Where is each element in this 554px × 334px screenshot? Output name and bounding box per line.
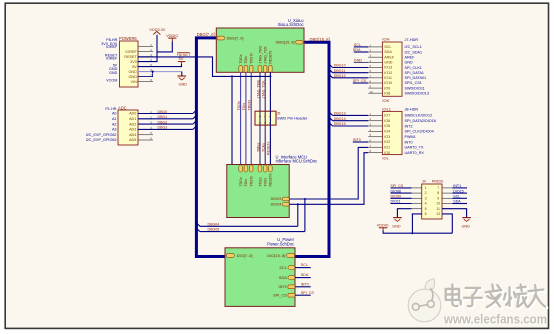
svg-text:12: 12: [436, 212, 440, 216]
ground symbol (J4 right): [462, 218, 471, 229]
svg-text:IO9: IO9: [384, 86, 390, 90]
wire 3V3 to VDD3.3V: [138, 35, 158, 62]
wire DBG10: [329, 64, 368, 68]
svg-text:GND: GND: [109, 71, 118, 75]
svg-text:INT0: INT0: [405, 140, 413, 144]
ground symbol GND (left): [178, 76, 188, 87]
U1 pin JTAG_TCK: [263, 45, 267, 72]
wire JTAG_TMS: [256, 72, 260, 164]
wire DIO11 (J4 left): [391, 200, 412, 204]
svg-text:DBG11: DBG11: [334, 69, 346, 73]
svg-text:TCKs: TCKs: [262, 143, 266, 152]
svg-text:AD0: AD0: [129, 112, 136, 116]
net label RESET (overbar): [177, 52, 191, 57]
U2 pin TRSTs: [249, 165, 253, 187]
svg-text:DIO09: DIO09: [391, 195, 401, 199]
svg-text:IO11: IO11: [384, 76, 392, 80]
wire DBG15: [329, 122, 368, 126]
wire DIO09 (J4 left): [391, 195, 412, 199]
wire GND (IOH): [354, 59, 369, 63]
connector IOH header: [382, 37, 402, 103]
svg-text:GND: GND: [405, 61, 414, 65]
connector P8 POWER6: [119, 36, 138, 87]
ground symbol (J4 left): [392, 218, 401, 229]
wire SPI_CS (U3): [295, 291, 314, 295]
svg-text:VDDIO: VDDIO: [166, 34, 178, 38]
wire VDDIO to 3V3 rail: [157, 42, 172, 52]
connector ADC: [118, 105, 138, 145]
svg-text:Power.SchDoc: Power.SchDoc: [267, 242, 294, 247]
wire SDA: [353, 48, 369, 52]
svg-text:4: 4: [425, 202, 427, 206]
svg-text:3: 3: [425, 196, 427, 200]
svg-text:DBG[7..0]: DBG[7..0]: [197, 32, 215, 37]
svg-text:INT0: INT0: [301, 282, 309, 286]
svg-text:SPI_CS: SPI_CS: [391, 184, 404, 188]
svg-text:DIO[15..8]: DIO[15..8]: [267, 253, 285, 258]
svg-text:AREF: AREF: [384, 55, 395, 59]
watermark logo: [408, 279, 441, 322]
svg-text:IO13: IO13: [384, 66, 392, 70]
wire RESET net: [138, 57, 272, 165]
U3 pin SCL: [279, 266, 295, 270]
wire SCL (J4 right): [452, 195, 467, 199]
svg-text:IOREF: IOREF: [106, 45, 118, 49]
svg-text:GND: GND: [129, 70, 138, 74]
power symbol VDDIO (J4): [377, 224, 389, 231]
svg-text:TMSs: TMSs: [258, 177, 262, 186]
svg-text:DIO08: DIO08: [391, 189, 401, 193]
svg-text:8: 8: [437, 191, 439, 195]
svg-text:AD5: AD5: [129, 138, 136, 142]
svg-text:7: 7: [437, 186, 439, 190]
svg-text:SPI_CLK2/DIO04: SPI_CLK2/DIO04: [405, 130, 434, 134]
svg-text:DBG14: DBG14: [334, 117, 346, 121]
svg-text:DBG3: DBG3: [158, 126, 168, 130]
svg-text:4: 4: [263, 115, 267, 117]
svg-text:IO4: IO4: [384, 130, 390, 134]
wire SPI_CS (J4 left): [391, 184, 412, 188]
svg-text:INT2: INT2: [405, 124, 413, 128]
svg-text:IO1: IO1: [384, 146, 390, 150]
svg-text:VCOM: VCOM: [106, 78, 117, 82]
svg-text:IO3: IO3: [384, 135, 390, 139]
svg-text:SWDCLK/DIO12: SWDCLK/DIO12: [405, 114, 433, 118]
svg-text:3V3: 3V3: [130, 60, 137, 64]
svg-text:TDOs: TDOs: [239, 54, 243, 63]
svg-text:DBG04: DBG04: [208, 222, 220, 226]
U1 pin TDOs: [239, 54, 243, 72]
svg-text:I2C_EXP_GPIO63: I2C_EXP_GPIO63: [86, 138, 117, 142]
svg-text:DBG[15..8]: DBG[15..8]: [276, 41, 295, 45]
U2 pin TMSs: [258, 165, 262, 187]
svg-text:SDA: SDA: [384, 50, 392, 54]
U2 pin DIO04: [271, 203, 290, 207]
wire DBG0: [138, 110, 196, 114]
IOL pin stubs: [368, 112, 382, 153]
svg-text:SPI_CS: SPI_CS: [301, 291, 315, 295]
svg-text:5V: 5V: [179, 57, 184, 61]
svg-text:5V: 5V: [132, 65, 137, 69]
wire DBG1: [138, 115, 196, 119]
wire DIO08 (J4 left): [391, 189, 412, 193]
svg-text:DBG2: DBG2: [158, 120, 168, 124]
IOH right description column: [405, 38, 429, 96]
svg-text:DBG10: DBG10: [334, 64, 346, 68]
power symbol 5V: [178, 57, 185, 64]
U1 pin RESETs: [269, 50, 273, 72]
bus label DBG[15..8]: [310, 37, 330, 42]
svg-text:TDIs: TDIs: [244, 56, 248, 64]
svg-text:IOREF: IOREF: [125, 50, 137, 54]
svg-text:SPI_CLK1: SPI_CLK1: [405, 66, 422, 70]
svg-text:DBG15: DBG15: [334, 122, 346, 126]
J5 pin numbers: [258, 115, 272, 123]
wire SCL: [354, 43, 369, 47]
svg-text:TRSTs: TRSTs: [250, 53, 254, 64]
svg-text:IO12: IO12: [384, 71, 392, 75]
svg-text:RESETs: RESETs: [269, 50, 273, 63]
svg-text:AD4: AD4: [129, 133, 136, 137]
svg-text:IOH: IOH: [382, 37, 389, 42]
svg-text:SCL: SCL: [453, 195, 460, 199]
svg-text:INT1: INT1: [453, 184, 461, 188]
svg-text:A3: A3: [112, 128, 117, 132]
wire DBG12: [329, 74, 368, 78]
svg-text:TDIs: TDIs: [242, 103, 246, 111]
svg-text:GND: GND: [384, 61, 393, 65]
svg-text:10: 10: [436, 202, 440, 206]
svg-text:VIN: VIN: [131, 80, 138, 84]
wire UART IO0 to DIO04: [289, 153, 368, 206]
svg-text:TDOs: TDOs: [239, 177, 243, 186]
svg-text:DIO03: DIO03: [271, 197, 282, 201]
svg-text:TMSs: TMSs: [256, 142, 260, 152]
svg-text:IO8: IO8: [384, 92, 390, 96]
svg-text:GND: GND: [462, 224, 471, 228]
wire DBG14: [329, 117, 368, 121]
U1 pin JTAG_TMS: [258, 45, 262, 72]
U2 pin TDIs: [244, 165, 248, 187]
wire INT0 (U3): [295, 282, 311, 286]
svg-text:SCL: SCL: [354, 43, 361, 47]
svg-text:1: 1: [425, 186, 427, 190]
svg-text:TRSTs: TRSTs: [250, 176, 254, 187]
svg-text:XiaLu.SchDoc: XiaLu.SchDoc: [278, 22, 304, 27]
IOL right description column: [405, 107, 436, 154]
svg-text:AD1: AD1: [129, 117, 136, 121]
svg-text:DBG05: DBG05: [208, 228, 220, 232]
svg-text:INT0: INT0: [279, 285, 287, 289]
ADC pin stubs and numbers: [138, 110, 153, 141]
U2 pin TCKs: [263, 165, 267, 187]
svg-text:I2C_SDA1: I2C_SDA1: [405, 50, 423, 54]
svg-text:IO2: IO2: [384, 140, 390, 144]
svg-text:SCL: SCL: [279, 266, 286, 270]
wire J4 pin5 to ground: [397, 209, 411, 218]
wire DBG05: [196, 199, 305, 232]
U2 pin DIO03: [271, 197, 290, 201]
svg-text:PWM1: PWM1: [405, 135, 416, 139]
svg-text:5: 5: [425, 207, 427, 211]
J4 pin stubs: [412, 188, 453, 214]
svg-text:SWDIO/DIO13: SWDIO/DIO13: [405, 92, 429, 96]
wire VDDIO net (J4 bottom): [383, 214, 452, 234]
svg-text:TRSTs: TRSTs: [248, 100, 252, 111]
U1 pin TRSTs: [249, 53, 253, 72]
svg-text:11: 11: [436, 207, 440, 211]
wire TDOs: [237, 72, 241, 164]
wire DBG11: [329, 69, 368, 73]
svg-text:DIO15: DIO15: [453, 189, 463, 193]
svg-text:SDA: SDA: [453, 200, 461, 204]
POWER6 left net name column: [101, 38, 118, 82]
svg-text:GND: GND: [179, 83, 188, 87]
svg-text:JTAG_TCK: JTAG_TCK: [262, 80, 266, 99]
POWER6 pin stubs and numbers: [138, 43, 153, 82]
svg-text:2: 2: [425, 191, 427, 195]
svg-text:DIO11: DIO11: [391, 200, 401, 204]
svg-text:TDOs: TDOs: [237, 101, 241, 111]
connector IOL header: [382, 106, 402, 160]
svg-text:SWD Pin Header: SWD Pin Header: [277, 116, 308, 121]
svg-text:IOREF: IOREF: [106, 57, 118, 61]
wire TRSTs: [248, 72, 252, 164]
svg-text:AD2: AD2: [129, 122, 136, 126]
bus DBG[15..8] (right): [294, 42, 329, 256]
watermark chinese text: [446, 285, 547, 309]
svg-text:TCKs: TCKs: [264, 178, 268, 187]
svg-text:IO7: IO7: [384, 114, 390, 118]
sheet symbol U1 U_XiaLu: [216, 18, 304, 72]
svg-text:2: 2: [258, 115, 262, 117]
svg-text:TDIs: TDIs: [244, 179, 248, 187]
svg-text:SCL: SCL: [384, 45, 391, 49]
svg-text:IO0: IO0: [384, 151, 390, 155]
wires through J5 header: [260, 111, 270, 125]
U1 pin DBG[15..8]: [276, 40, 303, 44]
ADC left net name column: [86, 107, 117, 142]
wire DBG2: [138, 120, 196, 124]
svg-text:3: 3: [263, 122, 267, 124]
svg-text:SPI_DATA1: SPI_DATA1: [405, 71, 425, 75]
svg-text:5: 5: [268, 122, 272, 124]
sheet symbol U3 U_Power: [225, 237, 295, 306]
svg-text:SPI1_CS1: SPI1_CS1: [405, 81, 422, 85]
svg-text:I2C_SCL1: I2C_SCL1: [405, 45, 422, 49]
wire SDA (J4 right): [452, 200, 467, 204]
svg-text:DBG0: DBG0: [158, 110, 168, 114]
IOH pin stubs: [368, 43, 382, 93]
wire J4 pin11 to ground: [442, 209, 467, 218]
svg-text:DIO04: DIO04: [271, 203, 282, 207]
svg-text:JTAG_TMS: JTAG_TMS: [256, 79, 260, 98]
svg-text:IO6: IO6: [384, 119, 390, 123]
svg-text:UART0_RX: UART0_RX: [405, 151, 425, 155]
U3 pin SPI_CS: [273, 293, 295, 297]
wire UART IO1 to DIO03: [289, 147, 368, 200]
bus DBG[7..0] (left): [196, 38, 226, 257]
wire INT1 (J4 right): [452, 184, 467, 188]
wire DBG04: [196, 204, 297, 226]
svg-text:JTAG_TMS: JTAG_TMS: [258, 45, 262, 64]
svg-text:SPI_DATA2/DIO16: SPI_DATA2/DIO16: [405, 119, 436, 123]
svg-text:VDD3.3V: VDD3.3V: [149, 28, 165, 32]
wire SDA (U3): [295, 273, 311, 277]
svg-text:DBG13: DBG13: [334, 112, 346, 116]
svg-text:GND: GND: [354, 59, 363, 63]
svg-text:VDDIO: VDDIO: [377, 224, 389, 228]
svg-text:SDA: SDA: [353, 48, 361, 52]
svg-text:DBG12: DBG12: [334, 74, 346, 78]
svg-text:IO10: IO10: [384, 81, 392, 85]
U3 pin DIO[15..8]: [267, 253, 294, 258]
svg-text:GND: GND: [392, 224, 401, 228]
svg-text:A0: A0: [112, 112, 117, 116]
svg-text:UART0_TX: UART0_TX: [405, 146, 424, 150]
U3 pin INT0: [279, 285, 295, 289]
svg-text:POWER6: POWER6: [119, 36, 137, 41]
svg-text:IO5: IO5: [384, 124, 390, 128]
sheet symbol U2 U_Interface MCU: [227, 155, 317, 218]
connector J5 SWD pin header: [255, 111, 308, 125]
svg-text:AD3: AD3: [129, 128, 136, 132]
svg-text:6: 6: [268, 115, 272, 117]
svg-text:6: 6: [425, 212, 427, 216]
U1 pin TDIs: [244, 56, 248, 72]
svg-text:SPI_CS: SPI_CS: [273, 293, 287, 297]
svg-text:RESETs: RESETs: [269, 173, 273, 186]
svg-text:RESETs: RESETs: [267, 141, 271, 155]
svg-text:P1-HR: P1-HR: [105, 107, 116, 111]
wire DIO15 (J4 right): [452, 189, 467, 193]
wire INT0: [353, 138, 369, 142]
svg-text:JTAG_TCK: JTAG_TCK: [264, 45, 268, 63]
svg-text:GND: GND: [129, 75, 138, 79]
svg-text:10: 10: [370, 90, 374, 94]
wire TDIs: [242, 72, 246, 164]
svg-text:DBG1: DBG1: [158, 115, 168, 119]
power symbol VDD3.3V: [149, 28, 165, 35]
svg-text:I2C_EXP_GPIO62: I2C_EXP_GPIO62: [86, 133, 117, 137]
svg-text:SDA: SDA: [301, 273, 309, 277]
svg-text:SPI_CS: SPI_CS: [353, 79, 367, 83]
wire GND pins: [138, 71, 182, 77]
svg-text:SDA: SDA: [279, 276, 287, 280]
svg-text:www.elecfans.com: www.elecfans.com: [443, 311, 547, 326]
svg-text:A1: A1: [112, 117, 117, 121]
svg-text:INT0: INT0: [353, 138, 361, 142]
U2 pin TDOs: [239, 165, 243, 187]
U1 pin DBG[7..0]: [217, 36, 243, 40]
svg-text:RESET: RESET: [124, 55, 137, 59]
svg-text:A2: A2: [112, 122, 117, 126]
svg-text:SPI_DATA01: SPI_DATA01: [405, 76, 427, 80]
svg-text:IOL1: IOL1: [382, 106, 391, 111]
svg-text:AREF: AREF: [405, 56, 416, 60]
svg-text:1: 1: [258, 122, 262, 124]
wire SCL (U3): [295, 263, 311, 267]
U3 pin DIO[7..0]: [226, 253, 252, 258]
power symbol VDDIO (top): [166, 34, 178, 42]
svg-text:J8-HDR: J8-HDR: [405, 107, 419, 111]
svg-text:PMOD: PMOD: [432, 180, 444, 184]
svg-text:IOK: IOK: [382, 98, 389, 103]
svg-text:J7-HDR: J7-HDR: [405, 38, 419, 42]
svg-text:DBG[15..8]: DBG[15..8]: [310, 37, 330, 42]
wire DBG13: [329, 112, 368, 116]
svg-text:9: 9: [437, 196, 439, 200]
U3 pin SDA: [279, 276, 295, 280]
wire JTAG_TCK: [262, 72, 266, 164]
svg-text:DBG[7..0]: DBG[7..0]: [227, 36, 244, 40]
svg-text:IOL: IOL: [382, 156, 389, 161]
bus label DBG[7..0]: [197, 32, 215, 37]
svg-text:SCL: SCL: [301, 263, 308, 267]
U2 pin RESETs: [269, 165, 273, 187]
wire 5V: [138, 64, 182, 67]
wire DBG3: [138, 126, 196, 130]
svg-text:Interface MCU.SchDoc: Interface MCU.SchDoc: [276, 158, 318, 163]
svg-text:SWD/DIO11: SWD/DIO11: [405, 86, 425, 90]
wire SPI_CS (IOH): [353, 79, 369, 83]
watermark url text: [443, 311, 548, 327]
connector J4 PMOD: [422, 180, 444, 219]
svg-text:DIO[7..0]: DIO[7..0]: [237, 253, 253, 258]
